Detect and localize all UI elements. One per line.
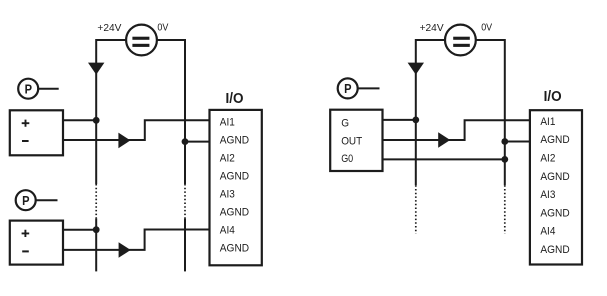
- wire 0V dotted continuation right: [504, 185, 506, 233]
- junction 0V-AGND: [182, 138, 189, 145]
- svg-text:I/O: I/O: [544, 89, 562, 105]
- label -: [22, 140, 29, 142]
- svg-text:AI1: AI1: [220, 117, 235, 129]
- junction +24V T2: [93, 226, 100, 233]
- svg-text:AGND: AGND: [220, 207, 249, 219]
- pressure sensor P1: [18, 79, 59, 99]
- junction +24V T1: [93, 117, 100, 124]
- label +: [22, 120, 30, 127]
- svg-text:P: P: [25, 82, 33, 97]
- svg-text:AGND: AGND: [220, 171, 249, 183]
- wire AGND right: [505, 141, 530, 143]
- wire 0V from supply right: [476, 40, 505, 185]
- svg-text:AGND: AGND: [540, 171, 569, 183]
- svg-text:AI2: AI2: [220, 153, 235, 165]
- power supply PS1: [126, 25, 157, 56]
- wire T1 plus to +24V: [63, 119, 96, 121]
- svg-text:AI3: AI3: [540, 189, 555, 201]
- svg-text:P: P: [344, 81, 352, 96]
- svg-text:AGND: AGND: [220, 135, 249, 147]
- svg-text:AI3: AI3: [220, 189, 235, 201]
- svg-text:0V: 0V: [157, 23, 168, 34]
- svg-text:+24V: +24V: [97, 23, 121, 34]
- svg-text:AGND: AGND: [540, 244, 569, 256]
- wire G to +24V: [383, 119, 416, 121]
- I/O module box right: [530, 110, 582, 264]
- junction +24V G: [412, 117, 419, 124]
- power supply PS2: [445, 25, 476, 56]
- svg-text:P: P: [22, 193, 30, 208]
- transmitter box T3: [330, 110, 382, 171]
- label +: [22, 230, 30, 237]
- label -: [22, 250, 29, 252]
- diode arrow D1: [88, 63, 104, 75]
- wire OUT to AI1: [383, 120, 530, 140]
- svg-text:AI1: AI1: [540, 116, 555, 128]
- current arrow A2: [119, 242, 131, 258]
- svg-text:I/O: I/O: [226, 91, 244, 107]
- wire +24V dotted continuation right: [415, 185, 417, 233]
- wire AGND1: [185, 141, 210, 143]
- svg-text:AGND: AGND: [540, 134, 569, 146]
- junction 0V-AGND right: [501, 138, 508, 145]
- svg-text:OUT: OUT: [341, 136, 362, 148]
- svg-text:0V: 0V: [481, 23, 492, 34]
- svg-text:+24V: +24V: [420, 23, 444, 34]
- wire 0V dotted continuation: [184, 184, 186, 218]
- diode arrow D2: [408, 63, 424, 75]
- svg-text:G: G: [341, 117, 349, 129]
- svg-text:AI4: AI4: [540, 226, 555, 238]
- svg-text:G0: G0: [341, 153, 353, 165]
- wire T2 minus to AI4: [63, 230, 210, 250]
- wire T2 plus to +24V: [63, 229, 96, 231]
- transmitter box T2: [10, 221, 63, 265]
- transmitter box T1: [10, 110, 63, 155]
- svg-text:AI2: AI2: [540, 152, 555, 164]
- wire +24V from supply: [96, 40, 126, 184]
- wire 0V lower segment: [184, 218, 186, 271]
- wire +24V dotted continuation: [95, 184, 97, 218]
- svg-text:AGND: AGND: [540, 207, 569, 219]
- svg-text:AGND: AGND: [220, 243, 249, 255]
- wire 0V from supply: [157, 40, 185, 184]
- junction 0V G0: [501, 156, 508, 163]
- svg-text:AI4: AI4: [220, 225, 235, 237]
- current arrow A1: [118, 133, 130, 149]
- pressure sensor P2: [16, 190, 58, 210]
- wire G0 to 0V: [383, 158, 505, 160]
- current arrow A3: [438, 132, 450, 148]
- I/O module box left: [210, 110, 262, 265]
- wire T1 minus to AI1: [63, 120, 210, 140]
- pressure sensor P3: [338, 78, 380, 98]
- wire +24V from supply right: [416, 40, 445, 185]
- wire +24V lower segment: [95, 218, 97, 271]
